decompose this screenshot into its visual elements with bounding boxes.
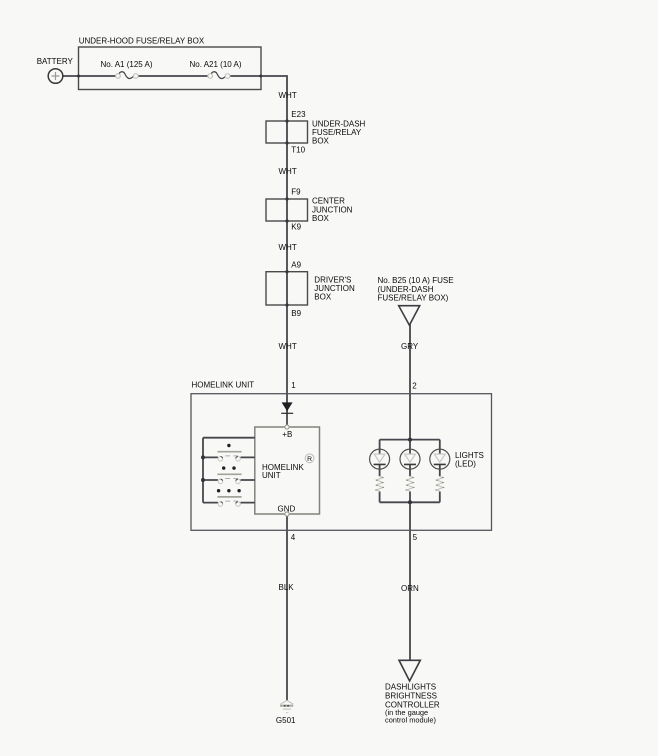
svg-text:T10: T10 [291, 145, 305, 154]
svg-text:K9: K9 [291, 222, 301, 231]
svg-text:GND: GND [278, 504, 296, 513]
svg-text:WHT: WHT [279, 342, 297, 351]
svg-text:A9: A9 [291, 261, 301, 270]
svg-text:BOX: BOX [312, 214, 330, 223]
svg-text:WHT: WHT [279, 243, 297, 252]
svg-text:2: 2 [412, 381, 417, 390]
svg-text:BRIGHTNESS: BRIGHTNESS [385, 692, 437, 701]
svg-text:WHT: WHT [279, 91, 297, 100]
svg-text:BOX: BOX [314, 293, 332, 302]
svg-text:BOX: BOX [312, 137, 330, 146]
svg-text:No. A1 (125 A): No. A1 (125 A) [100, 60, 152, 69]
svg-text:E23: E23 [291, 110, 306, 119]
svg-text:FUSE/RELAY BOX): FUSE/RELAY BOX) [378, 294, 449, 303]
svg-text:UNDER-HOOD FUSE/RELAY BOX: UNDER-HOOD FUSE/RELAY BOX [79, 36, 205, 45]
svg-text:G501: G501 [276, 716, 296, 725]
svg-text:No. A21 (10 A): No. A21 (10 A) [189, 60, 241, 69]
svg-text:ORN: ORN [401, 584, 419, 593]
svg-text:UNIT: UNIT [262, 471, 281, 480]
svg-text:WHT: WHT [279, 167, 297, 176]
svg-text:4: 4 [291, 533, 296, 542]
svg-text:(LED): (LED) [455, 460, 476, 469]
svg-text:No. B25 (10 A) FUSE: No. B25 (10 A) FUSE [378, 276, 454, 285]
svg-text:1: 1 [291, 381, 296, 390]
svg-text:DASHLIGHTS: DASHLIGHTS [385, 682, 436, 691]
svg-text:B9: B9 [291, 309, 301, 318]
svg-text:BLK: BLK [279, 583, 295, 592]
svg-text:HOMELINK UNIT: HOMELINK UNIT [192, 381, 255, 390]
svg-text:(UNDER-DASH: (UNDER-DASH [378, 285, 434, 294]
svg-text:control module): control module) [385, 715, 436, 724]
svg-text:R: R [307, 456, 312, 463]
svg-text:5: 5 [413, 533, 418, 542]
svg-text:+B: +B [282, 430, 292, 439]
svg-text:F9: F9 [291, 188, 301, 197]
svg-text:BATTERY: BATTERY [37, 57, 74, 66]
svg-text:GRY: GRY [401, 342, 419, 351]
